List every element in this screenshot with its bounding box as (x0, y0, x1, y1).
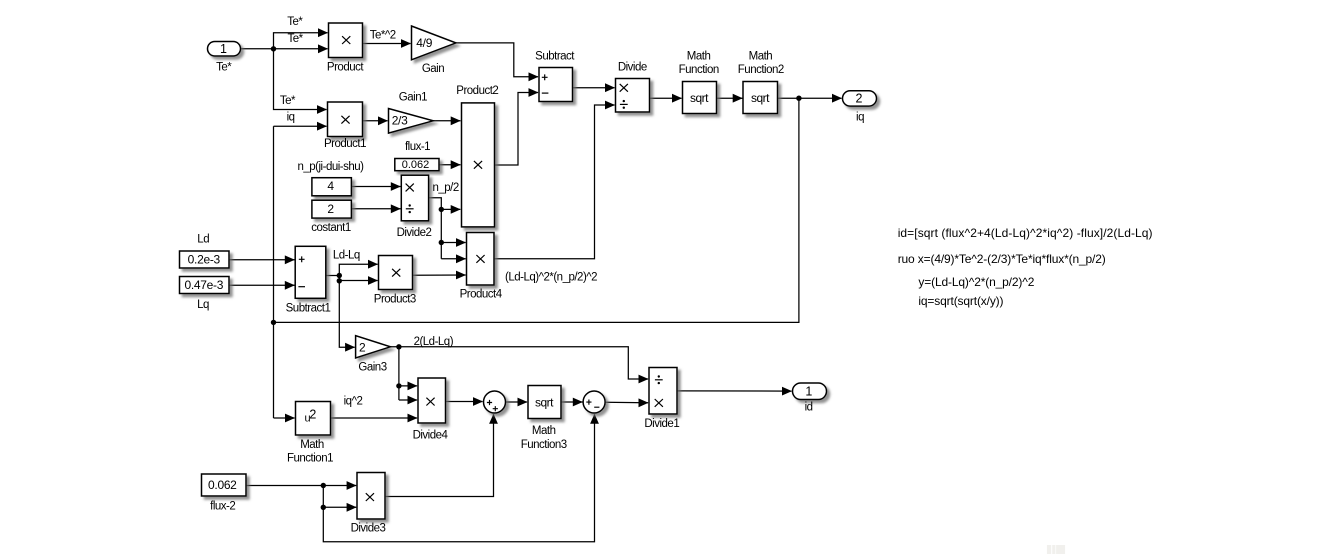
svg-text:Product4: Product4 (460, 288, 503, 300)
svg-text:Lq: Lq (197, 299, 209, 311)
svg-text:(Ld-Lq)^2*(n_p/2)^2: (Ld-Lq)^2*(n_p/2)^2 (505, 272, 597, 284)
svg-text:2: 2 (856, 92, 863, 106)
svg-text:2: 2 (327, 202, 334, 216)
svg-text:iq: iq (856, 112, 864, 124)
svg-text:y=(Ld-Lq)^2*(n_p/2)^2: y=(Ld-Lq)^2*(n_p/2)^2 (918, 275, 1034, 289)
svg-text:ruo x=(4/9)*Te^2-(2/3)*Te*iq*f: ruo x=(4/9)*Te^2-(2/3)*Te*iq*flux*(n_p/2… (898, 252, 1106, 266)
svg-text:Te*: Te* (287, 33, 303, 45)
svg-text:Function2: Function2 (738, 64, 784, 76)
svg-text:0.47e-3: 0.47e-3 (184, 278, 223, 292)
svg-text:0.062: 0.062 (402, 159, 430, 171)
svg-text:Te*^2: Te*^2 (370, 30, 396, 42)
svg-text:Divide2: Divide2 (397, 227, 432, 239)
svg-text:Math: Math (687, 50, 711, 62)
svg-text:Divide1: Divide1 (644, 418, 679, 430)
svg-text:Function1: Function1 (287, 453, 333, 465)
svg-text:Subtract: Subtract (535, 51, 575, 63)
svg-text:2(Ld-Lq): 2(Ld-Lq) (414, 336, 454, 348)
svg-text:0.062: 0.062 (208, 478, 237, 492)
svg-text:Product2: Product2 (456, 85, 498, 97)
svg-text:id: id (805, 402, 813, 414)
svg-text:Te*: Te* (287, 16, 303, 28)
svg-text:Ld-Lq: Ld-Lq (333, 249, 360, 261)
svg-text:2: 2 (309, 407, 316, 421)
svg-text:2/3: 2/3 (392, 114, 408, 128)
svg-text:Gain: Gain (422, 63, 444, 75)
svg-text:iq=sqrt(sqrt(x/y)): iq=sqrt(sqrt(x/y)) (918, 294, 1003, 308)
svg-text:Math: Math (532, 425, 556, 437)
svg-text:Gain3: Gain3 (358, 361, 386, 373)
svg-text:sqrt: sqrt (690, 91, 709, 105)
svg-text:Subtract1: Subtract1 (286, 302, 331, 314)
svg-text:n_p/2: n_p/2 (432, 182, 458, 194)
svg-text:flux-2: flux-2 (210, 501, 235, 513)
svg-text:4: 4 (327, 179, 334, 193)
svg-text:Te*: Te* (280, 95, 296, 107)
svg-text:Gain1: Gain1 (399, 92, 427, 104)
svg-text:1: 1 (220, 42, 227, 56)
svg-text:Function: Function (679, 64, 719, 76)
svg-text:Divide4: Divide4 (413, 430, 449, 442)
svg-text:Ld: Ld (197, 234, 209, 246)
svg-text:1: 1 (805, 385, 812, 399)
svg-text:sqrt: sqrt (751, 91, 770, 105)
svg-text:Product: Product (327, 62, 364, 74)
svg-text:2: 2 (359, 340, 366, 354)
svg-text:Product1: Product1 (324, 138, 366, 150)
svg-text:n_p(ji-dui-shu): n_p(ji-dui-shu) (297, 161, 364, 173)
svg-text:Math: Math (749, 50, 773, 62)
svg-text:sqrt: sqrt (535, 395, 554, 409)
svg-text:id=[sqrt (flux^2+4(Ld-Lq)^2*iq: id=[sqrt (flux^2+4(Ld-Lq)^2*iq^2) -flux]… (898, 226, 1153, 240)
svg-text:Divide3: Divide3 (351, 523, 386, 535)
svg-text:Divide: Divide (618, 62, 647, 74)
svg-text:0.2e-3: 0.2e-3 (188, 253, 221, 267)
svg-text:4/9: 4/9 (416, 36, 432, 50)
svg-text:costant1: costant1 (311, 222, 351, 234)
svg-text:Function3: Function3 (521, 439, 567, 451)
svg-text:Math: Math (300, 439, 324, 451)
svg-text:Te*: Te* (216, 61, 232, 73)
svg-text:flux-1: flux-1 (405, 141, 430, 153)
svg-text:Product3: Product3 (374, 294, 416, 306)
svg-text:iq: iq (287, 111, 295, 123)
svg-text:iq^2: iq^2 (344, 396, 363, 408)
